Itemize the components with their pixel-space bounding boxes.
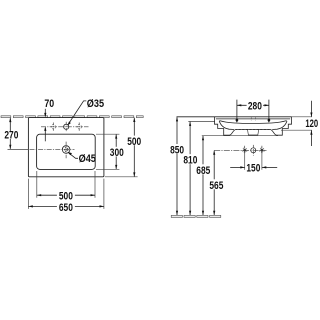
svg-text:850: 850 [170, 145, 184, 157]
svg-text:685: 685 [196, 165, 210, 177]
fixing hole marker left [236, 100, 238, 120]
dimension 280 (fixing holes distance) [237, 104, 269, 106]
bowl right wall curve [272, 121, 287, 130]
marker extension lines down to 150 dim [244, 154, 246, 170]
dimension 120 (apron height) [310, 101, 312, 117]
svg-text:150: 150 [246, 163, 260, 175]
dimension 850 vertical [176, 117, 178, 215]
drain outlet below bowl (front) [248, 130, 259, 135]
rim top line with extension to 850 arrow and 120 reference [177, 116, 292, 118]
fixing hole marker right [268, 100, 270, 120]
svg-text:300: 300 [110, 147, 124, 159]
svg-text:500: 500 [59, 190, 73, 202]
svg-text:120: 120 [305, 118, 318, 130]
svg-text:565: 565 [209, 180, 223, 192]
dimension 150 [230, 166, 245, 168]
svg-text:Ø35: Ø35 [87, 98, 104, 110]
svg-text:70: 70 [44, 98, 54, 110]
label O35 with leader [68, 101, 86, 125]
bowl inner rounded rectangle 500x300 [37, 134, 96, 169]
floor section bar [171, 215, 182, 217]
dimension 685 vertical [202, 136, 204, 215]
rim second line [216, 118, 290, 120]
dimension 70 (wall to tap line) [44, 109, 46, 117]
label O45 with leader [68, 153, 78, 159]
svg-text:650: 650 [59, 202, 73, 214]
svg-text:810: 810 [183, 155, 197, 167]
drain fitting marker right [261, 149, 264, 152]
tap hole right (punchable) [77, 125, 81, 129]
dimension 500 horizontal (bowl width) [36, 171, 38, 198]
basin outer outline 650x500 (top view) [28, 118, 104, 177]
drain hole O45 [62, 146, 70, 154]
svg-text:500: 500 [127, 136, 141, 148]
hidden tap hole dashes on rim [251, 117, 255, 120]
810 reference line [188, 120, 215, 122]
drain fitting marker centre [251, 148, 256, 153]
basin body outline (front) [215, 117, 292, 135]
tap hole left (punchable) [51, 125, 55, 129]
685 reference line under feet [202, 135, 278, 137]
dimension 300 vertical (bowl depth) [115, 134, 117, 169]
drain fitting marker left [243, 149, 246, 152]
dimension 650 horizontal (basin width) [27, 179, 29, 209]
wall section bar (top view) [1, 116, 11, 118]
dimension 565 vertical [213, 151, 215, 215]
svg-text:280: 280 [248, 101, 262, 113]
drain fitting centerline (565 reference) [214, 149, 266, 151]
tap hole centre circle (O35) [64, 124, 69, 129]
bowl opening front lip (flat lens curve) [220, 121, 287, 124]
120 bottom reference line [281, 129, 312, 131]
bowl left wall curve [219, 121, 234, 130]
dimension 500 vertical (basin depth) [133, 118, 135, 177]
dimension 810 vertical [189, 122, 191, 215]
dimension 270 (wall to drain center) [9, 118, 11, 149]
svg-text:270: 270 [4, 130, 18, 142]
tap hole centerline [41, 126, 89, 128]
hidden bowl bottom (dashed) [235, 129, 272, 131]
svg-text:Ø45: Ø45 [79, 153, 96, 165]
drain centerline horizontal [8, 148, 29, 150]
